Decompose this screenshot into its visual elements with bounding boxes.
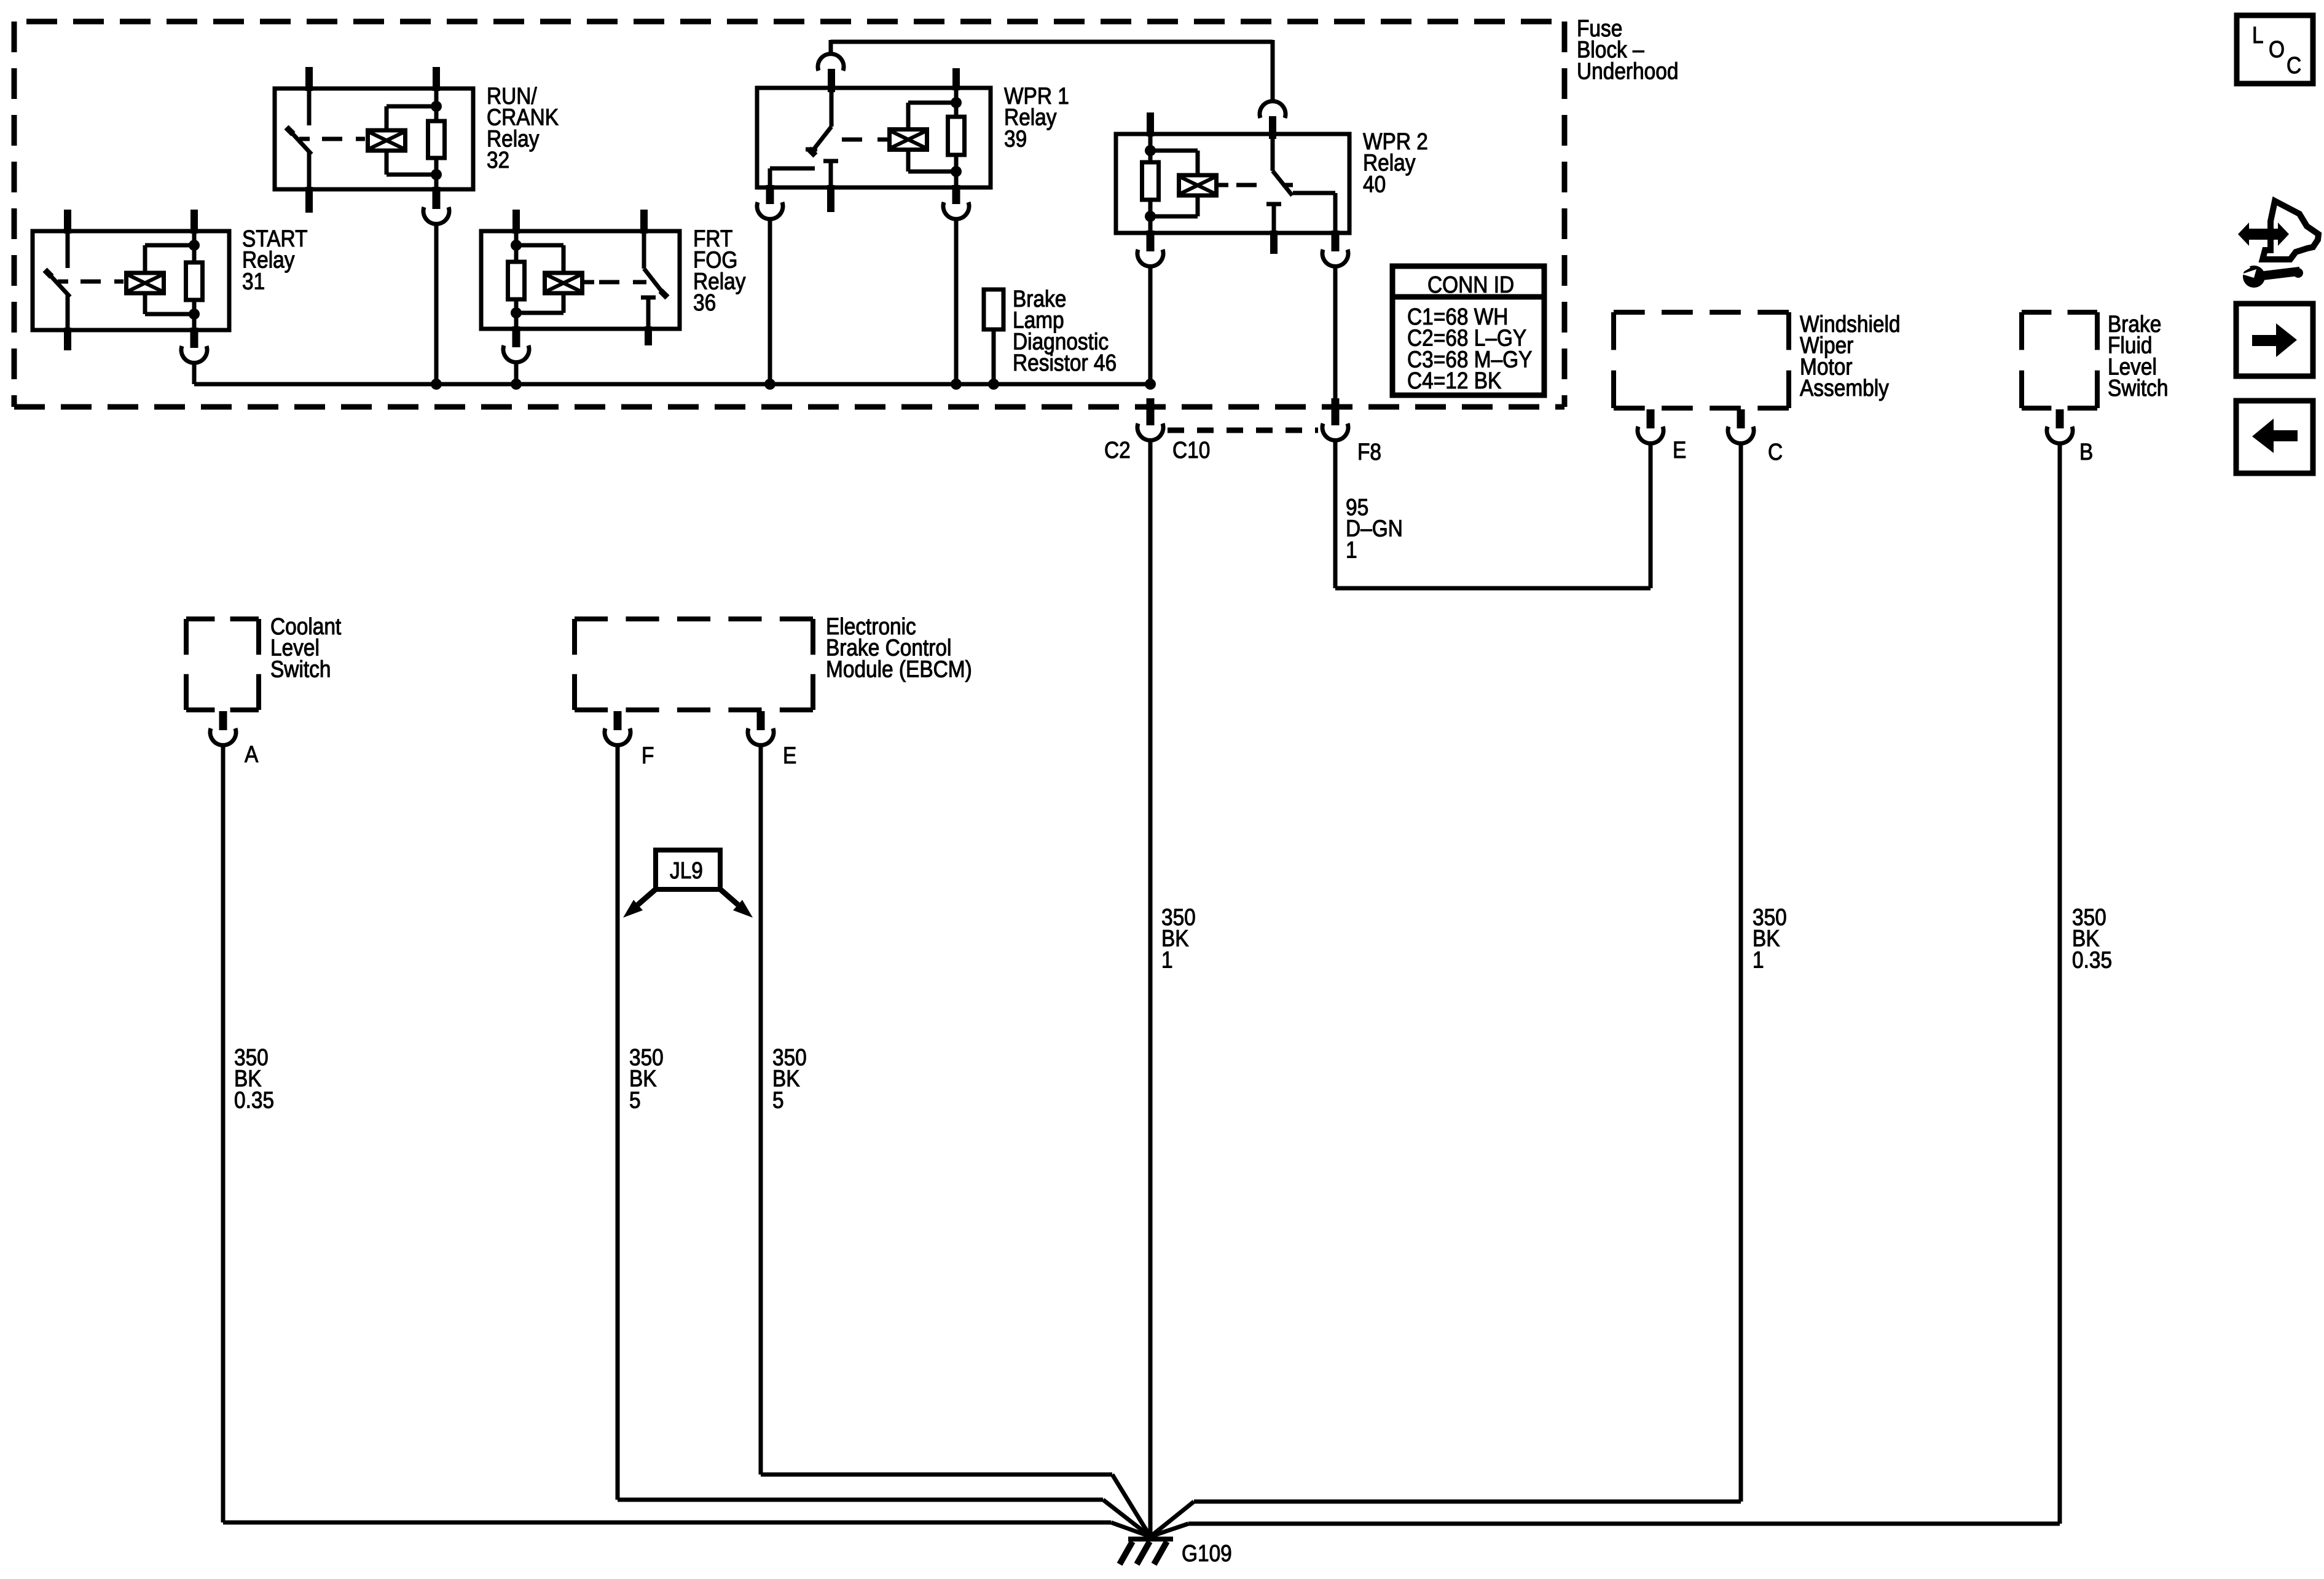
svg-text:40: 40: [1363, 171, 1386, 197]
brake fluid level switch dashed box: [2022, 312, 2097, 408]
ground bus wire inside fuse block: [194, 382, 1150, 387]
F label: [642, 742, 654, 768]
EBCM label: [826, 613, 972, 682]
wire WPR2 left pin to ground bus end: [1148, 266, 1153, 384]
svg-text:1: 1: [1346, 537, 1357, 562]
fuse block underhood dashed boundary: [14, 22, 1564, 407]
svg-text:O: O: [2269, 36, 2285, 62]
svg-text:Underhood: Underhood: [1577, 58, 1678, 84]
svg-text:CONN ID: CONN ID: [1427, 272, 1514, 297]
connector cup below WPR2 left pin: [1137, 250, 1163, 266]
svg-text:Switch: Switch: [2108, 375, 2168, 401]
connector cup below RUN/CRANK relay: [423, 207, 449, 224]
wire EBCM F to ground G109 (350 BK 5): [618, 746, 1150, 1537]
connector cup below WPR1 left pin: [757, 202, 783, 219]
wire from WPR1 relay switch pin to WPR2 relay switch pin (top feed): [831, 40, 1273, 101]
relay FRT FOG 36: [481, 210, 680, 347]
START relay label: [242, 226, 308, 294]
wire label 350 BK 5 (F wire): [629, 1044, 664, 1113]
wire label 350 BK 1 (C2 wire): [1161, 904, 1196, 973]
svg-text:0.35: 0.35: [2072, 947, 2112, 972]
brake fluid switch pin B: [2056, 409, 2064, 428]
WPR 2 relay label: [1363, 128, 1428, 197]
svg-text:36: 36: [693, 289, 716, 315]
wire C2/C10 down to ground G109 (circuit 350 BK): [1148, 441, 1153, 1537]
EBCM pin E: [757, 711, 765, 730]
svg-text:F8: F8: [1357, 439, 1381, 465]
brake fluid level switch label: [2108, 311, 2168, 401]
svg-text:G109: G109: [1182, 1540, 1232, 1566]
brake lamp diagnostic resistor label: [1013, 286, 1117, 376]
svg-text:E: E: [783, 742, 796, 768]
svg-text:0.35: 0.35: [234, 1087, 274, 1112]
windshield wiper motor label: [1800, 311, 1901, 401]
svg-text:5: 5: [629, 1087, 641, 1112]
wire label 350 BK 5 (E wire): [772, 1044, 807, 1113]
svg-text:1: 1: [1161, 947, 1173, 972]
E label (EBCM): [783, 742, 796, 768]
svg-text:39: 39: [1004, 125, 1027, 151]
wiper motor cup C: [1728, 427, 1754, 443]
wire brake fluid switch B to ground G109 (350 BK 0.35): [1150, 444, 2060, 1537]
JL9 arrow to F wire: [623, 888, 657, 918]
EBCM cup F: [605, 728, 630, 745]
wire F8 to windshield wiper motor E (circuit 95 D-GN): [1335, 441, 1651, 588]
connector C2/C10 male pin through fuse block boundary: [1147, 398, 1155, 425]
B label: [2079, 439, 2093, 465]
windshield wiper motor assembly dashed box: [1614, 312, 1789, 408]
EBCM cup E: [748, 728, 774, 745]
relay RUN/CRANK 32: [275, 67, 473, 213]
connector F8 male pin through fuse block boundary: [1332, 398, 1340, 425]
svg-text:L: L: [2252, 22, 2264, 48]
inline connector dotted tie C10-F8: [1168, 428, 1318, 433]
connector cup below START relay: [181, 346, 207, 363]
wire WPR1 right pin to ground bus: [954, 219, 959, 384]
svg-text:C4=12 BK: C4=12 BK: [1407, 368, 1501, 393]
svg-text:Switch: Switch: [270, 656, 331, 682]
wire label 95 D-GN 1: [1346, 494, 1403, 563]
F8 label: [1357, 439, 1381, 465]
wire wiper motor C to ground G109 (350 BK 1): [1150, 444, 1741, 1537]
wiper motor pin C: [1737, 409, 1745, 428]
electronic brake control module dashed box: [575, 619, 813, 710]
A label: [245, 741, 258, 767]
JL9 arrow to E wire: [719, 888, 753, 918]
connector cup below FRT FOG relay: [503, 345, 529, 362]
svg-text:E: E: [1673, 437, 1686, 463]
G109 label: [1182, 1540, 1232, 1566]
EBCM pin F: [614, 711, 622, 730]
back arrow icon box: [2236, 401, 2313, 473]
relay START 31: [33, 210, 229, 350]
relay WPR 1 39: [757, 68, 991, 212]
wire FRT FOG relay to ground bus: [514, 362, 519, 384]
wiper motor pin E: [1647, 409, 1655, 428]
svg-text:C10: C10: [1172, 437, 1210, 463]
brake lamp diagnostic resistor 46: [984, 289, 1003, 390]
wire label 350 BK 1 (wiper C wire): [1753, 904, 1787, 973]
relay WPR 2 40: [1116, 112, 1349, 254]
C label (wiper): [1768, 439, 1783, 465]
FRT FOG relay label: [693, 226, 746, 316]
WPR 1 relay label: [1004, 83, 1069, 152]
coolant switch cup A: [210, 728, 236, 745]
wire WPR2 right pin down to F8: [1333, 266, 1338, 400]
svg-text:C2: C2: [1104, 437, 1131, 463]
wire RUN/CRANK relay to ground bus: [434, 224, 439, 384]
connector cup above WPR2 switch pin: [1260, 101, 1286, 118]
svg-text:5: 5: [772, 1087, 784, 1112]
connector C2/C10 cup: [1137, 423, 1163, 440]
connector cup below WPR1 right pin: [943, 202, 969, 219]
wire START relay to ground bus: [192, 363, 197, 384]
E label (wiper): [1673, 437, 1686, 463]
wire WPR1 left pin to ground bus: [768, 219, 772, 384]
connector cup below WPR2 right pin: [1322, 250, 1348, 266]
forward arrow icon box: [2236, 304, 2313, 376]
coolant switch pin A: [219, 711, 227, 730]
svg-text:32: 32: [487, 147, 509, 173]
ground G109 symbol: [1120, 1539, 1173, 1564]
LOC icon box: [2237, 15, 2313, 84]
RUN/CRANK relay label: [487, 83, 559, 173]
svg-text:Module (EBCM): Module (EBCM): [826, 656, 972, 682]
svg-text:Resistor 46: Resistor 46: [1013, 350, 1117, 376]
svg-text:B: B: [2079, 439, 2093, 465]
C2 label: [1104, 437, 1131, 463]
wire EBCM E to ground G109 (350 BK 5): [761, 746, 1150, 1537]
svg-text:Assembly: Assembly: [1800, 375, 1889, 401]
svg-text:A: A: [245, 741, 258, 767]
svg-text:F: F: [642, 742, 654, 768]
wire coolant switch A to ground G109 (350 BK 0.35): [223, 746, 1150, 1537]
fuse block label: [1577, 15, 1678, 84]
svg-text:1: 1: [1753, 947, 1764, 972]
wire label 350 BK 0.35 (A wire): [234, 1044, 274, 1113]
svg-text:JL9: JL9: [670, 857, 703, 883]
connector F8 cup: [1322, 423, 1348, 440]
svg-text:C: C: [2287, 52, 2301, 78]
wire label 350 BK 0.35 (B wire): [2072, 904, 2112, 973]
JL9 option callout box: [656, 850, 720, 889]
coolant level switch dashed box: [186, 619, 259, 710]
CONN ID table: [1392, 266, 1544, 395]
C10 label: [1172, 437, 1210, 463]
brake fluid switch cup B: [2047, 427, 2073, 443]
svg-text:C: C: [1768, 439, 1783, 465]
wiper motor cup E: [1638, 427, 1663, 443]
coolant level switch label: [270, 613, 341, 682]
connector cup above WPR1 switch pin: [818, 54, 844, 71]
svg-text:31: 31: [242, 268, 265, 294]
service instruction icon (hand with double arrow and wrench): [2238, 201, 2318, 288]
